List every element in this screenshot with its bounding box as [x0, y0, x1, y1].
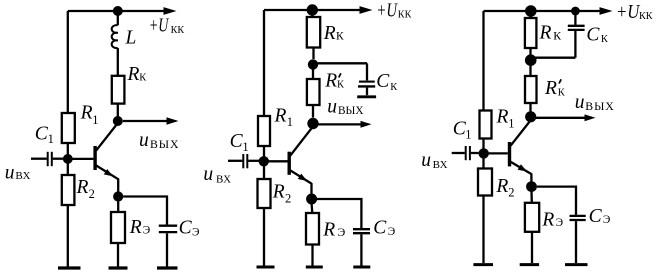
ground under R2 c3: [473, 263, 493, 266]
capacitor CK c2: [313, 63, 398, 95]
svg-text:2: 2: [89, 187, 95, 201]
svg-text:C: C: [376, 71, 390, 92]
resistor R1 c2: [258, 105, 293, 146]
svg-text:ВЫХ: ВЫХ: [338, 105, 364, 117]
ground under CE c2: [353, 266, 370, 269]
wire left rail upper c3: [482, 11, 484, 111]
svg-text:ВХ: ВХ: [15, 170, 30, 182]
ground under R2 c2: [257, 266, 275, 269]
node top left c3: [525, 5, 537, 17]
svg-text:Э: Э: [556, 217, 563, 229]
label u_vyx c2: [327, 97, 363, 118]
label u_vx c1: [5, 162, 31, 183]
wire output arrow c1: [123, 120, 167, 122]
capacitor C1 c1: [31, 124, 63, 167]
svg-text:К: К: [336, 30, 344, 42]
svg-text:u: u: [5, 162, 15, 183]
wire rail c1: [67, 143, 69, 155]
svg-text:C: C: [589, 206, 603, 227]
svg-text:КК: КК: [639, 11, 653, 22]
wire rail lower c1: [67, 205, 69, 267]
svg-text:R: R: [324, 71, 337, 92]
wire base c3: [487, 152, 508, 154]
svg-text:К: К: [601, 34, 609, 45]
resistor RK c2: [307, 17, 344, 48]
resistor RK' c2: [307, 71, 345, 105]
svg-text:1: 1: [242, 140, 248, 154]
resistor R2 c1: [62, 175, 95, 205]
svg-text:Э: Э: [337, 225, 345, 239]
ground under CE c1: [157, 266, 178, 269]
wire top rail c2: [264, 9, 360, 11]
resistor R1 c1: [62, 103, 99, 143]
capacitor C1 c2: [228, 131, 259, 169]
arrowhead output c1: [167, 117, 179, 124]
label u_vyx c3: [575, 92, 615, 113]
resistor RE c1: [111, 212, 150, 243]
arrowhead output c3: [585, 114, 596, 121]
node base c1: [63, 154, 73, 164]
wire c1: [166, 233, 168, 266]
svg-text:1: 1: [508, 117, 514, 131]
label +Ukk c2: [376, 1, 411, 22]
inductor L c1: [112, 14, 137, 48]
svg-text:L: L: [125, 27, 137, 48]
svg-text:ВХ: ВХ: [433, 159, 448, 171]
node base c3: [479, 148, 489, 158]
svg-text:R: R: [544, 78, 557, 99]
svg-text:R: R: [80, 103, 93, 124]
node output c3: [525, 111, 536, 122]
wire left rail upper c2: [263, 10, 265, 116]
wire c2: [312, 105, 314, 118]
svg-text:u: u: [575, 92, 585, 113]
wire c1: [117, 48, 119, 76]
wire rail lower c2: [263, 208, 265, 266]
ground under RE c2: [306, 266, 323, 269]
node top right c3: [571, 7, 580, 16]
transistor VT2 c2: [289, 127, 312, 194]
wire emitter right c1: [123, 197, 167, 225]
node output c2: [307, 118, 318, 129]
wire rail c1: [67, 162, 69, 175]
arrowhead +Ukk c2: [360, 6, 373, 14]
node junction c2: [308, 59, 318, 69]
resistor RK c1: [112, 64, 148, 104]
label u_vyx c1: [139, 130, 179, 151]
wire c2: [311, 10, 313, 17]
resistor RE c3: [525, 203, 563, 232]
svg-text:R: R: [496, 107, 509, 128]
svg-text:К: К: [139, 72, 147, 83]
label u_vx c3: [421, 150, 447, 171]
capacitor CE c1: [159, 218, 200, 239]
node emitter c2: [306, 194, 317, 205]
capacitor CE c2: [353, 218, 395, 239]
svg-text:R: R: [127, 64, 140, 85]
ground under CK c2: [357, 95, 376, 98]
label u_vx c2: [203, 164, 231, 185]
svg-text:2: 2: [508, 185, 514, 199]
svg-text:C: C: [373, 218, 387, 239]
svg-text:ВХ: ВХ: [216, 173, 231, 185]
wire c1: [117, 104, 119, 117]
wire rail lower c3: [482, 196, 484, 264]
wire base c2: [267, 160, 288, 162]
svg-text:КК: КК: [398, 10, 412, 21]
svg-text:R: R: [495, 176, 508, 197]
wire c3: [529, 65, 531, 76]
svg-text:К: К: [337, 79, 345, 90]
ground under RE c1: [109, 266, 128, 269]
svg-text:u: u: [421, 150, 431, 171]
node base c2: [259, 156, 269, 166]
svg-text:C: C: [586, 25, 600, 46]
svg-text:КК: КК: [171, 25, 185, 36]
svg-text:ВЫХ: ВЫХ: [150, 137, 179, 151]
resistor RK c3: [525, 18, 561, 48]
wire output arrow c3: [536, 117, 585, 119]
wire top rail c1: [68, 10, 164, 12]
svg-text:Э: Э: [143, 225, 150, 237]
svg-text:К: К: [553, 28, 561, 42]
wire output arrow c2: [318, 123, 361, 125]
wire c3: [529, 48, 531, 55]
svg-text:u: u: [203, 164, 213, 185]
resistor RK' c3: [525, 76, 566, 103]
svg-text:К: К: [558, 87, 566, 98]
svg-text:u: u: [139, 130, 149, 151]
wire emitter down c2: [310, 204, 313, 213]
label +Ukk c3: [616, 2, 653, 23]
ground under R2 c1: [58, 266, 81, 269]
svg-text:+U: +U: [616, 2, 641, 23]
svg-text:Э: Э: [388, 226, 395, 238]
arrowhead +Ukk c3: [600, 7, 613, 15]
resistor R1 c3: [480, 107, 515, 139]
transistor VT1 c1: [95, 124, 118, 193]
node top c2: [307, 4, 318, 15]
wire c3: [529, 11, 531, 18]
wire left rail upper c1: [67, 11, 69, 113]
transistor VT3 c3: [510, 121, 532, 182]
wire c2: [311, 245, 313, 266]
wire emitter right c2: [317, 199, 361, 228]
label +Ukk c1: [149, 16, 184, 37]
svg-text:2: 2: [285, 192, 291, 206]
wire c2: [360, 234, 362, 265]
svg-text:R: R: [76, 177, 89, 198]
arrowhead +Ukk c1: [164, 7, 177, 15]
svg-text:+U: +U: [376, 1, 398, 22]
svg-text:Э: Э: [192, 226, 199, 238]
wire emitter down c3: [530, 192, 533, 203]
svg-text:R: R: [129, 217, 142, 238]
resistor R2 c3: [478, 169, 515, 200]
wire emitter down c1: [117, 201, 119, 212]
arrowhead output c2: [361, 121, 372, 128]
wire c3: [531, 232, 533, 263]
wire c3: [529, 103, 531, 112]
wire c3: [575, 221, 577, 263]
node emitter c3: [526, 181, 537, 192]
node emitter c1: [113, 191, 123, 201]
wire c2: [312, 68, 314, 79]
svg-text:1: 1: [287, 115, 293, 129]
svg-text:1: 1: [92, 113, 98, 127]
svg-text:R: R: [322, 219, 335, 240]
ground under CE c3: [565, 263, 588, 266]
resistor R2 c2: [258, 179, 292, 208]
svg-text:R: R: [539, 22, 552, 43]
svg-text:1: 1: [48, 132, 54, 146]
wire base c1: [71, 158, 93, 160]
svg-text:К: К: [390, 82, 398, 93]
wire rail c2: [263, 146, 265, 157]
node top c1: [113, 6, 123, 16]
node junction c3: [525, 54, 537, 66]
svg-text:R: R: [274, 105, 287, 126]
wire emitter right c3: [537, 187, 576, 215]
node output c1: [113, 116, 123, 126]
svg-text:+U: +U: [149, 16, 170, 37]
capacitor CE c3: [570, 206, 611, 227]
capacitor C1 c3: [452, 118, 479, 160]
wire top rail c3: [484, 10, 601, 12]
ground under RE c3: [520, 263, 539, 266]
wire rail c3: [482, 157, 484, 169]
svg-text:ВЫХ: ВЫХ: [585, 99, 614, 113]
wire rail c3: [482, 139, 484, 150]
svg-text:u: u: [327, 97, 337, 118]
svg-text:1: 1: [465, 128, 471, 142]
svg-text:R: R: [323, 23, 336, 44]
svg-text:C: C: [179, 218, 193, 239]
wire c2: [312, 48, 314, 60]
wire c1: [117, 243, 119, 267]
resistor RE c2: [306, 213, 345, 245]
svg-text:R: R: [272, 182, 285, 203]
svg-text:R: R: [541, 209, 554, 230]
svg-text:Э: Э: [603, 214, 610, 226]
capacitor CK c3: [533, 11, 609, 58]
wire rail c2: [263, 165, 265, 179]
